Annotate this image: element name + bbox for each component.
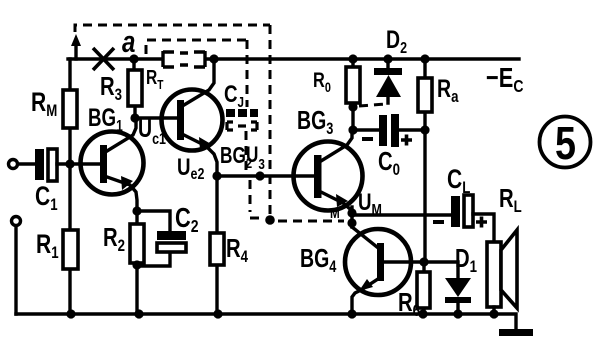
wire speaker to rail [492, 307, 495, 314]
resistor R4 [215, 176, 218, 314]
node on wire [255, 171, 264, 180]
transistor BG1 [81, 103, 144, 211]
node BG1 collector junction [130, 113, 139, 122]
wire left drop from rail to input node [68, 59, 71, 164]
wire C1 to BG1 base [57, 162, 101, 165]
node C0 right [420, 125, 429, 134]
resistor R0 [351, 59, 354, 131]
dashed link to node M [278, 220, 344, 223]
resistor R6 [422, 262, 425, 314]
node dashed corner dot [265, 215, 275, 225]
dashed outer box top [75, 25, 270, 32]
node BG2 emitter [212, 171, 221, 180]
dashed outer box right edge [269, 25, 272, 216]
capacitor C1 [35, 149, 44, 180]
node M [347, 208, 356, 217]
node BG2 collector on rail [209, 54, 218, 63]
resistor RM [63, 90, 77, 128]
dashed inner box right edge [246, 40, 249, 107]
input terminal bottom [12, 217, 21, 226]
node R0 top on rail [348, 54, 357, 63]
wire M to CL [352, 213, 450, 216]
svg-text:M: M [330, 205, 340, 222]
wire right column down [423, 130, 426, 262]
capacitor C0 [353, 128, 425, 131]
diode D1 [424, 244, 477, 314]
dashed CJ to wire [245, 131, 248, 172]
dashed link R0 to D2 anode [359, 104, 386, 106]
node R2 bottom [132, 260, 141, 269]
node a [129, 54, 138, 63]
wire bottom terminal to rail [14, 226, 17, 314]
X mark on wire [93, 48, 114, 70]
svg-text:5: 5 [555, 117, 576, 169]
speaker RL [487, 184, 522, 308]
node Ra top on rail [420, 54, 429, 63]
transistor BG3 [294, 105, 363, 213]
resistor R3 [134, 59, 135, 118]
capacitor CL [451, 196, 460, 227]
wire junction down to R1 [68, 164, 71, 314]
node BG3 collector [348, 125, 357, 134]
dashed series capacitor on rail (RT network) [163, 51, 205, 67]
transistor BG4 [300, 227, 424, 314]
transistor BG2 [162, 59, 223, 183]
wire top rail -Ec [68, 57, 519, 60]
node BG4 collector [419, 257, 428, 266]
bottom rail junction dots [66, 309, 75, 318]
wire node to BG2 base [135, 116, 177, 119]
arrow into wire (outer box left) [74, 44, 77, 59]
node D2 on rail [383, 54, 392, 63]
dashed inner below wire with corner [250, 180, 260, 218]
dashed inner box top [146, 40, 247, 54]
figure number 5 [540, 117, 591, 168]
wire bottom rail [16, 312, 494, 315]
capacitor CJ (dashed) [226, 109, 258, 117]
ground [494, 314, 516, 330]
svg-text:a: a [122, 24, 135, 59]
resistor R2 [135, 211, 138, 314]
node BG1 emitter [132, 206, 141, 215]
node R0 bottom [348, 102, 357, 111]
node input junction [65, 159, 74, 168]
input terminal top [9, 160, 18, 169]
capacitor C2 [137, 211, 170, 266]
wire input to C1 [18, 162, 34, 165]
resistor Ra [423, 59, 426, 130]
diode D2 [374, 26, 407, 103]
wire BG2 emitter to BG3 base [217, 174, 314, 177]
wire CL to speaker [473, 214, 494, 242]
resistor R1 [63, 230, 78, 269]
